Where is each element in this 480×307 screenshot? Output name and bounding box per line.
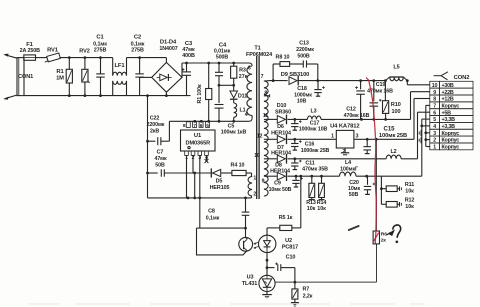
wire primary gnd vertical — [147, 96, 149, 198]
wire row1-row2 vertical — [194, 173, 196, 198]
svg-text:RV1: RV1 — [47, 48, 59, 54]
svg-text:10к: 10к — [307, 206, 316, 212]
wire row B to CON2 pin9 — [321, 118, 411, 120]
connector CON1 — [17, 58, 24, 96]
svg-text:D6: D6 — [277, 124, 284, 130]
node top rail C2 — [138, 56, 141, 59]
wire bridge left vertex to C2 column — [140, 76, 152, 78]
svg-text:C15: C15 — [384, 125, 396, 132]
svg-text:1: 1 — [331, 134, 334, 140]
resistor R1 100k (startup) — [207, 62, 210, 65]
diode inside bridge — [160, 74, 167, 81]
T1 aux winding pins 1-2 — [248, 177, 252, 197]
svg-text:27к: 27к — [239, 74, 248, 80]
capacitor C1 0.1mk 275B — [100, 58, 102, 74]
T1 core — [256, 56, 258, 199]
wire primary gnd row2 — [148, 197, 252, 199]
capacitor C20 10mk 50B — [367, 176, 369, 185]
wire row3 — [197, 227, 246, 229]
svg-text:R6: R6 — [381, 231, 387, 237]
resistor R13 10k — [311, 176, 313, 183]
resistor R12 10k — [381, 203, 386, 205]
svg-text:2200мк: 2200мк — [296, 47, 314, 53]
svg-text:470мк 16В: 470мк 16В — [344, 113, 370, 119]
svg-text:L2: L2 — [390, 149, 396, 155]
pen arrow mark — [388, 229, 395, 236]
svg-text:12: 12 — [257, 134, 263, 140]
capacitor C3 47mk 400B — [185, 62, 188, 65]
svg-text:500В: 500В — [297, 53, 310, 59]
CON2 table — [430, 81, 440, 88]
red annotation trace — [366, 78, 376, 244]
IC U1 box — [181, 130, 216, 151]
scan artifact faint line bottom — [28, 303, 425, 305]
svg-text:47мк: 47мк — [154, 156, 167, 162]
svg-text:8: 8 — [264, 91, 267, 97]
node top rail R1 — [68, 56, 71, 59]
capacitor C18 1000mk 10B — [317, 81, 319, 90]
wire top rail F1 to RV1 — [36, 57, 48, 59]
svg-text:U1: U1 — [194, 133, 202, 139]
capacitor C10 — [267, 267, 275, 269]
svg-text:R5 1к: R5 1к — [279, 215, 293, 221]
wire pin5 lead — [207, 120, 209, 123]
optocoupler U2 PC817 — [266, 228, 268, 236]
svg-text:R13: R13 — [306, 200, 316, 206]
svg-text:1: 1 — [253, 176, 256, 182]
svg-text:10к: 10к — [317, 206, 326, 212]
svg-text:C22: C22 — [150, 116, 160, 122]
red mark in R6 — [373, 233, 379, 242]
svg-text:R3: R3 — [239, 67, 246, 73]
svg-text:2: 2 — [253, 192, 256, 198]
svg-text:10мк 50В: 10мк 50В — [269, 187, 292, 193]
inductor L4 — [340, 172, 357, 176]
svg-text:C13: C13 — [299, 41, 309, 47]
node top rail C1 — [99, 56, 102, 59]
wire CON1 line arrow bottom — [5, 95, 18, 99]
svg-text:C4: C4 — [219, 43, 227, 49]
svg-text:HER104: HER104 — [271, 130, 291, 136]
wire row E to R11 R12 — [356, 175, 381, 177]
svg-text:RV2: RV2 — [79, 49, 89, 55]
svg-text:9: 9 — [262, 179, 265, 185]
svg-text:D11: D11 — [238, 94, 247, 100]
svg-text:C10: C10 — [286, 254, 296, 260]
svg-text:5: 5 — [206, 123, 209, 129]
capacitor C5 100mk 1kB — [218, 84, 221, 87]
svg-text:CON1: CON1 — [18, 74, 33, 80]
svg-text:R11: R11 — [405, 182, 414, 188]
svg-text:50В: 50В — [155, 162, 165, 168]
capacitor C9 10mk 50B — [295, 176, 297, 180]
diode D5 HER105 — [210, 168, 212, 177]
wire L5 to CON2 pin10 — [406, 79, 409, 82]
svg-text:U4 KA7812: U4 KA7812 — [330, 124, 359, 130]
capacitor C19 470mk 16B — [373, 81, 375, 102]
resistor R14 10k — [321, 176, 323, 183]
svg-text:2кВ: 2кВ — [150, 128, 159, 134]
capacitor C2 0.1mk 275B — [139, 58, 141, 74]
capacitor C7 47mk 50B row — [148, 172, 158, 174]
tap pin10 — [264, 158, 272, 160]
svg-text:R1 100к: R1 100к — [197, 84, 203, 103]
snubber R8 10 + C13 — [272, 64, 274, 81]
svg-text:50В: 50В — [349, 192, 359, 198]
svg-text:C3: C3 — [185, 41, 193, 47]
svg-text:275В: 275В — [94, 48, 107, 54]
svg-text:L5: L5 — [393, 65, 399, 71]
svg-text:2,2к: 2,2к — [303, 293, 313, 299]
svg-text:11: 11 — [263, 113, 268, 119]
diode D6 HER104 — [277, 136, 285, 144]
capacitor C16 1000mk 25B — [294, 139, 296, 143]
svg-text:0,1мк: 0,1мк — [206, 216, 220, 222]
T1 secondary winding — [264, 81, 268, 196]
zener D11 — [233, 85, 235, 91]
tap pin9 — [264, 175, 272, 177]
svg-text:6: 6 — [200, 123, 203, 129]
svg-text:1000мк: 1000мк — [294, 92, 312, 98]
svg-text:D9 SB3100: D9 SB3100 — [281, 72, 310, 78]
svg-text:F1: F1 — [26, 42, 33, 48]
svg-text:L4: L4 — [345, 160, 351, 166]
svg-text:C9: C9 — [274, 180, 281, 186]
wire Vcc bus above U1 — [169, 120, 249, 122]
U2 LED — [264, 241, 271, 246]
resistor R7 2.2k — [294, 282, 296, 289]
shunt regulator U3 TL431 — [259, 275, 275, 291]
wire pin2 lead down — [192, 155, 194, 173]
wire DC+ line — [182, 62, 249, 64]
svg-text:2200мк: 2200мк — [147, 122, 165, 128]
wire C4 node to R3 node — [219, 84, 234, 86]
svg-text:100мк 1кВ: 100мк 1кВ — [221, 129, 247, 135]
svg-text:100мкГ: 100мкГ — [340, 166, 358, 172]
capacitor C8 0.1mk — [245, 198, 247, 212]
capacitor C15 100mk 25B — [366, 139, 368, 146]
bottom rail — [24, 95, 191, 97]
wire R6 bottom lead — [376, 244, 378, 282]
svg-text:HER105: HER105 — [210, 185, 230, 191]
gnd ticks — [420, 130, 422, 136]
svg-text:U3: U3 — [247, 274, 254, 280]
resistor R6 2k — [373, 231, 379, 244]
U1 bottom pin boxes 1 2 3 4 — [185, 151, 189, 155]
U2 transistor — [243, 241, 245, 249]
svg-text:SR360: SR360 — [275, 109, 291, 115]
svg-text:R10: R10 — [391, 102, 401, 108]
fuse F1 2A 250B — [23, 57, 25, 59]
wire row C to CON2 pin8 — [413, 99, 415, 140]
svg-text:500В: 500В — [216, 55, 229, 61]
choke LF1 — [112, 58, 114, 76]
svg-text:1: 1 — [433, 145, 436, 151]
T1 primary winding pins 6-4 — [249, 63, 252, 66]
wire row A to L5 — [361, 80, 386, 82]
capacitor C11 470mk 35B — [294, 159, 296, 163]
svg-text:7: 7 — [261, 74, 264, 80]
svg-text:C7: C7 — [157, 150, 164, 156]
thermistor RV1 — [47, 53, 61, 62]
svg-text:10к: 10к — [405, 204, 414, 210]
resistor R4 10 — [232, 170, 246, 175]
svg-text:R7: R7 — [302, 287, 309, 293]
wire ground bus rows 7,3,2,1 — [426, 104, 430, 106]
wire bridge bottom to rail — [165, 92, 167, 95]
pen dash mark — [349, 226, 359, 230]
wire aux rect row — [195, 172, 212, 174]
svg-text:100: 100 — [392, 109, 401, 115]
wire fb rail — [275, 281, 376, 283]
tap pin7 — [264, 80, 270, 82]
wire pin3 lead down — [199, 155, 201, 198]
tap pin8 stub — [264, 95, 270, 97]
regulator U4 KA7812 — [336, 130, 354, 148]
wire CON1 line arrow top — [5, 55, 18, 59]
varistor RV2 275B — [84, 58, 86, 70]
diode D10 SR360 — [277, 116, 285, 124]
svg-text:4: 4 — [245, 112, 248, 118]
svg-text:T1: T1 — [254, 46, 260, 52]
svg-text:400В: 400В — [182, 53, 195, 59]
wire pin1 lead down — [186, 155, 188, 198]
svg-text:C8: C8 — [208, 209, 215, 215]
diode D9 SB3100 — [289, 77, 297, 85]
inductor L2 — [386, 155, 401, 159]
svg-text:C1: C1 — [96, 35, 104, 41]
resistor R10 100 — [384, 81, 386, 101]
wire pin4 stub + x mark — [206, 155, 208, 160]
svg-text:1000мк 25В: 1000мк 25В — [301, 148, 330, 154]
svg-text:R12: R12 — [405, 198, 415, 204]
wire U2 collector — [245, 228, 247, 238]
svg-text:100мк 25В: 100мк 25В — [379, 133, 407, 139]
svg-text:47мк: 47мк — [182, 47, 195, 53]
node top rail RV2 — [84, 56, 87, 59]
svg-text:R14: R14 — [317, 200, 327, 206]
resistor R3 27k — [232, 62, 235, 65]
wire row E to CON2 pins 4,5 — [381, 175, 421, 177]
svg-text:C18: C18 — [297, 86, 307, 92]
svg-text:HER104: HER104 — [270, 168, 290, 174]
svg-text:D1-D4: D1-D4 — [160, 40, 177, 46]
resistor R11 10k — [380, 176, 382, 204]
svg-text:C20: C20 — [349, 180, 359, 186]
svg-text:1000мк 10В: 1000мк 10В — [299, 127, 328, 133]
svg-text:C2: C2 — [134, 35, 141, 41]
svg-text:3: 3 — [356, 134, 359, 140]
CON2 antenna symbol — [434, 75, 441, 77]
U2 arrows — [254, 242, 259, 243]
svg-text:PC817: PC817 — [282, 244, 298, 250]
wire pin8 lead — [187, 120, 189, 123]
wire U2 emitter — [197, 228, 248, 255]
wire pin6 lead — [200, 120, 202, 123]
capacitor C12 470mk 16B — [360, 81, 362, 90]
svg-text:8: 8 — [183, 123, 186, 129]
svg-text:DM0365R: DM0365R — [186, 141, 211, 147]
svg-text:2к: 2к — [381, 238, 387, 244]
resistor R5 1k — [267, 227, 280, 229]
diode D8 HER104 — [277, 172, 285, 180]
svg-text:Корпус: Корпус — [442, 145, 460, 151]
svg-text:470мк 35В: 470мк 35В — [302, 166, 328, 172]
tap pin11 — [264, 118, 272, 120]
svg-text:L3: L3 — [310, 109, 316, 115]
svg-text:HER104: HER104 — [271, 151, 291, 157]
capacitor C4 0.01mk 500B — [218, 62, 221, 65]
wire pin7 lead — [194, 120, 196, 123]
svg-text:275В: 275В — [131, 48, 144, 54]
svg-text:1М: 1М — [56, 75, 64, 81]
svg-text:TL431: TL431 — [242, 281, 257, 287]
svg-text:10мк: 10мк — [348, 186, 361, 192]
inductor L5 — [385, 77, 389, 81]
svg-text:1N4007: 1N4007 — [159, 46, 177, 52]
svg-text:LF1: LF1 — [114, 63, 125, 69]
wire row C — [272, 138, 277, 140]
capacitor C17 1000mk 10B — [294, 119, 296, 123]
tap pin12 — [264, 138, 272, 140]
wire row D — [272, 158, 277, 160]
svg-text:7: 7 — [193, 123, 196, 129]
bridge rectifier D1-D4 1N4007 — [165, 58, 167, 63]
wire row E — [272, 175, 277, 177]
svg-text:C16: C16 — [305, 142, 315, 148]
U1 top pin boxes 8 7 6 5 — [186, 122, 190, 128]
svg-text:CON2: CON2 — [454, 75, 470, 81]
svg-text:R8 10: R8 10 — [276, 55, 290, 61]
svg-text:C12: C12 — [346, 107, 356, 113]
svg-text:10: 10 — [254, 153, 260, 159]
svg-text:R1: R1 — [56, 69, 64, 75]
wire row A — [270, 80, 288, 82]
svg-text:2A 250В: 2A 250В — [20, 48, 41, 54]
U3 ground — [266, 292, 268, 295]
svg-text:C19: C19 — [376, 82, 386, 88]
wire row D to CON2 pin6 — [401, 158, 417, 160]
wire top rail RV1 to bridge — [60, 57, 113, 59]
pen question mark — [393, 225, 401, 237]
wire LED cathode down — [266, 253, 268, 275]
inductor L3 — [307, 116, 321, 119]
svg-text:10В: 10В — [297, 99, 307, 105]
inductor L1 — [233, 99, 235, 103]
resistor R1 1M — [68, 58, 70, 70]
diode D7 HER104 — [277, 155, 285, 163]
svg-text:U2: U2 — [285, 238, 292, 244]
wire aux top — [251, 176, 254, 178]
svg-text:6: 6 — [248, 65, 251, 71]
wire U4 out — [354, 138, 414, 140]
wire bridge right vertex up to DC+ line — [181, 63, 183, 77]
svg-text:D5: D5 — [216, 178, 223, 184]
svg-text:D10: D10 — [277, 103, 287, 109]
wire R6 top lead — [375, 139, 377, 231]
svg-text:10к: 10к — [405, 188, 414, 194]
svg-text:R4 10: R4 10 — [231, 163, 245, 169]
wire row B — [272, 118, 277, 120]
capacitor C22 2200mk 2kB — [148, 140, 156, 142]
